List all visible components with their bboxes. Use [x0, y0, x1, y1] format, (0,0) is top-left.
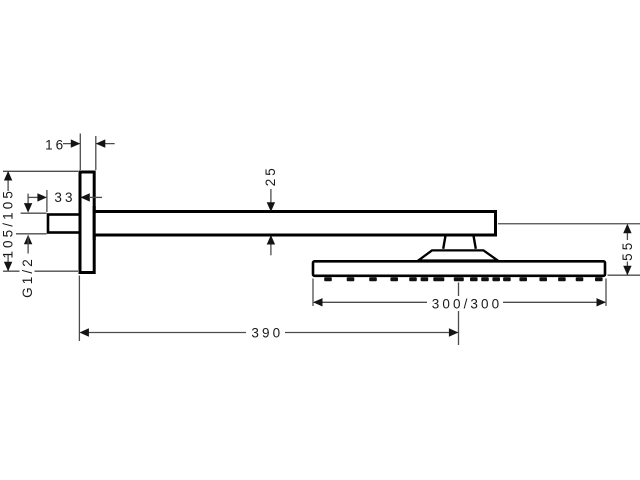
G1/2 arrow down — [24, 203, 32, 213]
dim 33 right arrow — [80, 193, 90, 201]
dim 33 extension v line — [46, 190, 48, 212]
dim 25 arrow down — [267, 202, 275, 212]
arm axis extension line — [498, 223, 640, 225]
dim 25 line lower — [270, 237, 272, 256]
dim 390 wall extension — [78, 276, 80, 342]
supply pipe G1/2 nipple — [48, 215, 81, 233]
dim 390 right arrow — [449, 328, 459, 336]
svg-text:105/105: 105/105 — [1, 188, 16, 258]
G1/2 lower leader — [27, 237, 29, 254]
head bottom extension line — [608, 274, 640, 276]
dim 55 arrow down — [623, 266, 631, 276]
joint neck — [443, 234, 476, 249]
dim 105/105 line — [7, 172, 9, 271]
dim 300/300 right arrow — [597, 298, 607, 306]
G1/2 arrow up — [24, 235, 32, 245]
svg-text:G1/2: G1/2 — [20, 256, 35, 298]
dim 105/105 arrow up — [4, 171, 12, 181]
dim 55 line — [626, 225, 628, 275]
dim 300/300 right extension — [605, 279, 607, 307]
dim 105/105 bottom extension — [3, 270, 78, 272]
joint bell cone — [418, 250, 497, 260]
dim 33 left arrow — [37, 193, 47, 201]
shower head slab — [313, 261, 605, 276]
neck side right — [473, 235, 476, 249]
dim 105/105 top extension — [3, 170, 78, 172]
svg-text:33: 33 — [54, 190, 75, 205]
pipe bottom extension line — [16, 233, 47, 235]
nozzle row — [324, 277, 602, 281]
dim 105/105 arrow down — [4, 262, 12, 272]
G1/2 upper leader — [27, 194, 29, 211]
dim 300/300 left arrow — [313, 298, 323, 306]
pipe top extension line — [21, 212, 47, 214]
svg-text:300/300: 300/300 — [432, 296, 503, 311]
dim 300/300 left extension — [312, 279, 314, 307]
dim 390 left arrow — [79, 328, 89, 336]
dim 33 right line — [89, 196, 102, 198]
dim 16 lines — [63, 143, 115, 145]
dim 16 extension lines — [80, 134, 96, 171]
dim 25 arrow up — [267, 235, 275, 245]
dim 300/300 line — [314, 301, 605, 303]
svg-text:55: 55 — [620, 240, 635, 261]
neck side left — [443, 235, 446, 249]
shower arm — [94, 212, 496, 236]
svg-text:390: 390 — [251, 326, 283, 341]
dim 25 line upper — [270, 189, 272, 211]
dim 55 arrow up — [623, 224, 631, 234]
dim 33 left line — [28, 196, 38, 198]
svg-text:25: 25 — [263, 165, 278, 186]
dim 390 line — [87, 332, 458, 334]
svg-text:16: 16 — [45, 137, 66, 152]
head centerline — [458, 283, 460, 346]
wall plate escutcheon — [80, 172, 94, 273]
wall plate right edge over arm — [93, 206, 96, 240]
dim 16 arrows — [71, 139, 106, 147]
